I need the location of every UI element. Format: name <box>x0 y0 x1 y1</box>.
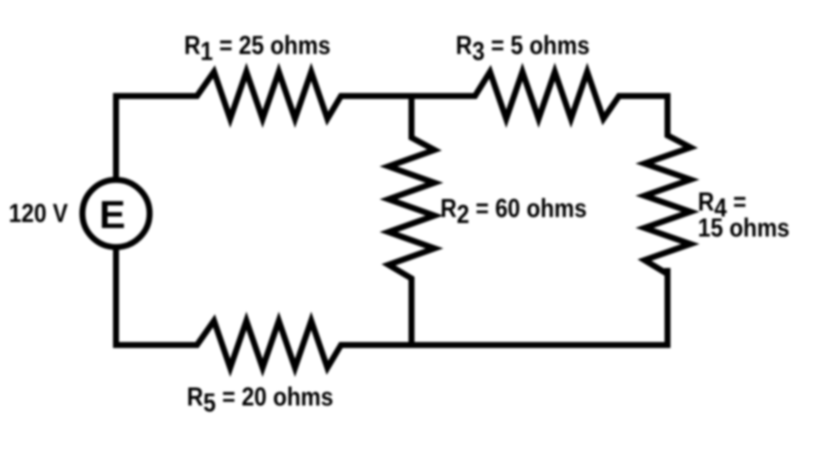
resistor R2 <box>389 96 435 345</box>
value label 15 ohms <box>698 214 790 243</box>
svg-text:120 V: 120 V <box>9 200 69 229</box>
svg-text:15 ohms: 15 ohms <box>698 214 790 243</box>
voltage source E (circle) <box>82 180 149 247</box>
value label R2 = 60 ohms <box>440 195 586 230</box>
svg-text:R1 = 25 ohms: R1 = 25 ohms <box>184 32 330 67</box>
svg-text:R5 = 20 ohms: R5 = 20 ohms <box>187 383 333 418</box>
resistor R3 <box>468 72 626 119</box>
wire: node B to R5 <box>341 342 418 348</box>
wire: node A to R3 <box>405 93 475 99</box>
resistor R4 <box>645 128 691 281</box>
value label R1 = 25 ohms <box>184 32 330 67</box>
resistor R5 <box>190 321 348 368</box>
svg-text:R3 = 5 ohms: R3 = 5 ohms <box>456 32 590 67</box>
resistor R1 <box>190 72 348 119</box>
label: 120 V <box>9 200 69 229</box>
wire: R3 to top-right corner down to R4 <box>619 96 668 135</box>
svg-text:R2 = 60 ohms: R2 = 60 ohms <box>440 195 586 230</box>
value label R3 = 5 ohms <box>456 32 590 67</box>
wire: R4 down to bottom-right corner and left to node B <box>405 268 668 345</box>
value label R5 = 20 ohms <box>187 383 333 418</box>
wire: R1 to node A <box>341 93 418 99</box>
value label R4 = <box>698 188 746 223</box>
wire: R5 left and up to source bottom terminal <box>116 250 197 345</box>
wire: source top terminal up and right to R1 <box>116 96 197 177</box>
svg-text:E: E <box>99 193 125 237</box>
